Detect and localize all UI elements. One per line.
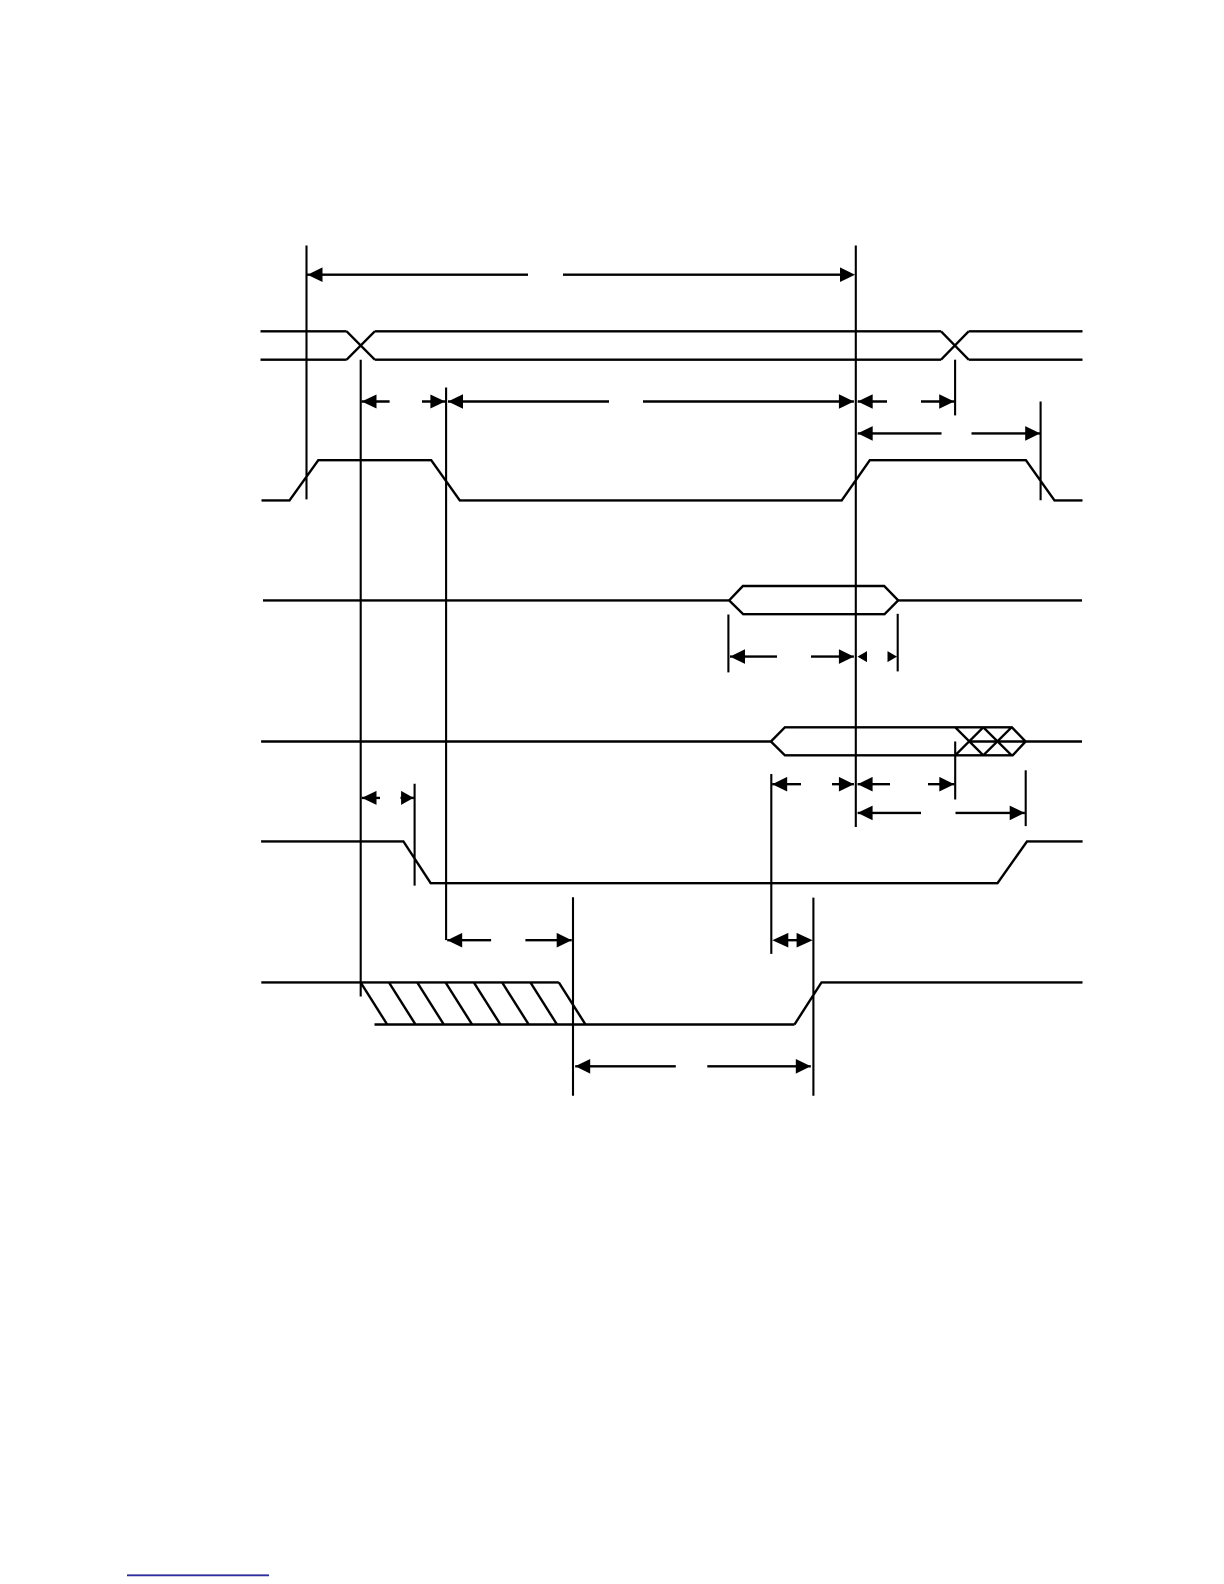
bus crossover 1 — [347, 331, 375, 359]
dimension tEH right arrowhead — [839, 394, 854, 409]
dimension tDSW right arrowhead — [839, 649, 854, 664]
dimension tOD left arrowhead — [858, 806, 873, 821]
hatch boundary / extension at x=955.2 — [954, 742, 956, 800]
row D baseline left — [261, 740, 771, 742]
dimension tEH left arrowhead — [448, 394, 463, 409]
dimension tAW right arrowhead — [401, 791, 414, 805]
dimension tDSW arrow line — [730, 655, 777, 657]
dimension tEL left arrowhead — [858, 426, 873, 441]
dimension tDDR left arrowhead — [772, 777, 787, 792]
dimension tAS left arrowhead — [362, 395, 377, 409]
dimension tEL right arrowhead — [1025, 426, 1040, 441]
extension line V2 at x=360.7 — [360, 360, 362, 997]
row F waveform top line — [261, 981, 559, 983]
extension line at x=414.6 — [414, 784, 416, 886]
extension line V3 at x=446.1 — [445, 388, 447, 941]
dimension tDHR left arrowhead — [858, 777, 873, 792]
row D lens outline — [771, 727, 1026, 755]
extension line at x=573.0 — [572, 897, 574, 1096]
dimension tEL arrow line — [858, 432, 942, 434]
dimension tCYC right arrowhead — [840, 267, 855, 282]
dimension tDDR arrow line — [772, 783, 801, 785]
dimension tDDR right arrowhead — [839, 777, 854, 792]
row C baseline right — [898, 599, 1082, 601]
dimension tAW arrow line — [362, 797, 380, 799]
extension line at x=813.4 — [812, 898, 814, 1096]
extension line below RS lens right at x=897.7 — [897, 614, 899, 672]
dimension tAH right arrowhead — [939, 394, 954, 409]
bus crossover 2 — [941, 331, 969, 359]
dimension tCYC8 left arrowhead — [447, 933, 462, 948]
dimension tWH left arrowhead — [772, 933, 788, 948]
footer link rule (blue) — [127, 1574, 269, 1576]
row F rising edge and high line — [795, 982, 1083, 1024]
dimension tDSW left arrowhead — [730, 649, 745, 664]
bus waveform bottom line — [261, 359, 347, 361]
extension line at x=1040.6 — [1040, 402, 1042, 501]
dimension tAS right arrowhead — [430, 395, 445, 409]
dimension tAH left arrowhead — [858, 394, 873, 409]
row C baseline left — [263, 599, 729, 601]
extension line V4 at x=855.8 — [855, 246, 857, 828]
extension line below RS lens left at x=728.4 — [727, 615, 729, 673]
dimension tWLW right arrowhead — [796, 1059, 811, 1074]
dimension tH small right arrowhead — [888, 651, 898, 662]
row D dont-care cross hatch — [955, 727, 983, 755]
dimension tWLW left arrowhead — [575, 1059, 590, 1074]
dimension tEH arrow line — [448, 400, 609, 402]
extension line at x=1025.7 — [1025, 770, 1027, 826]
row F falling edge — [559, 982, 586, 1024]
enable waveform — [262, 460, 1083, 500]
row D baseline right — [1026, 740, 1082, 742]
dimension tWH compact arrow — [788, 939, 798, 941]
dimension tCYC arrow line — [308, 274, 529, 276]
dimension tOD arrow line — [858, 812, 921, 814]
dimension tWH right arrowhead — [797, 933, 813, 948]
dimension tCYC8 arrow line — [447, 939, 491, 941]
dimension tAH arrow line — [858, 400, 887, 402]
dimension tAW left arrowhead — [362, 791, 377, 805]
extension line at x=771.3 — [770, 774, 772, 954]
dimension tOD right arrowhead — [1010, 806, 1025, 821]
dimension tCYC8 right arrowhead — [557, 933, 572, 948]
row C lens — [729, 586, 898, 614]
row F bottom/low line — [375, 1023, 795, 1025]
extension stub below bus crossover 2 at x=955.1 — [954, 360, 956, 416]
bus waveform top line — [261, 330, 347, 332]
dimension tWLW arrow line — [575, 1065, 676, 1067]
dimension tCYC left arrowhead — [308, 267, 323, 282]
dimension tH small left arrowhead — [858, 651, 868, 662]
dimension tDHR arrow line — [858, 783, 890, 785]
dimension tDHR right arrowhead — [939, 777, 954, 792]
row F hatch diagonals — [361, 982, 388, 1024]
extension line V1 at x=306.5 — [305, 246, 307, 500]
dimension tAS arrow line — [362, 400, 390, 402]
row E waveform — [261, 841, 1083, 883]
